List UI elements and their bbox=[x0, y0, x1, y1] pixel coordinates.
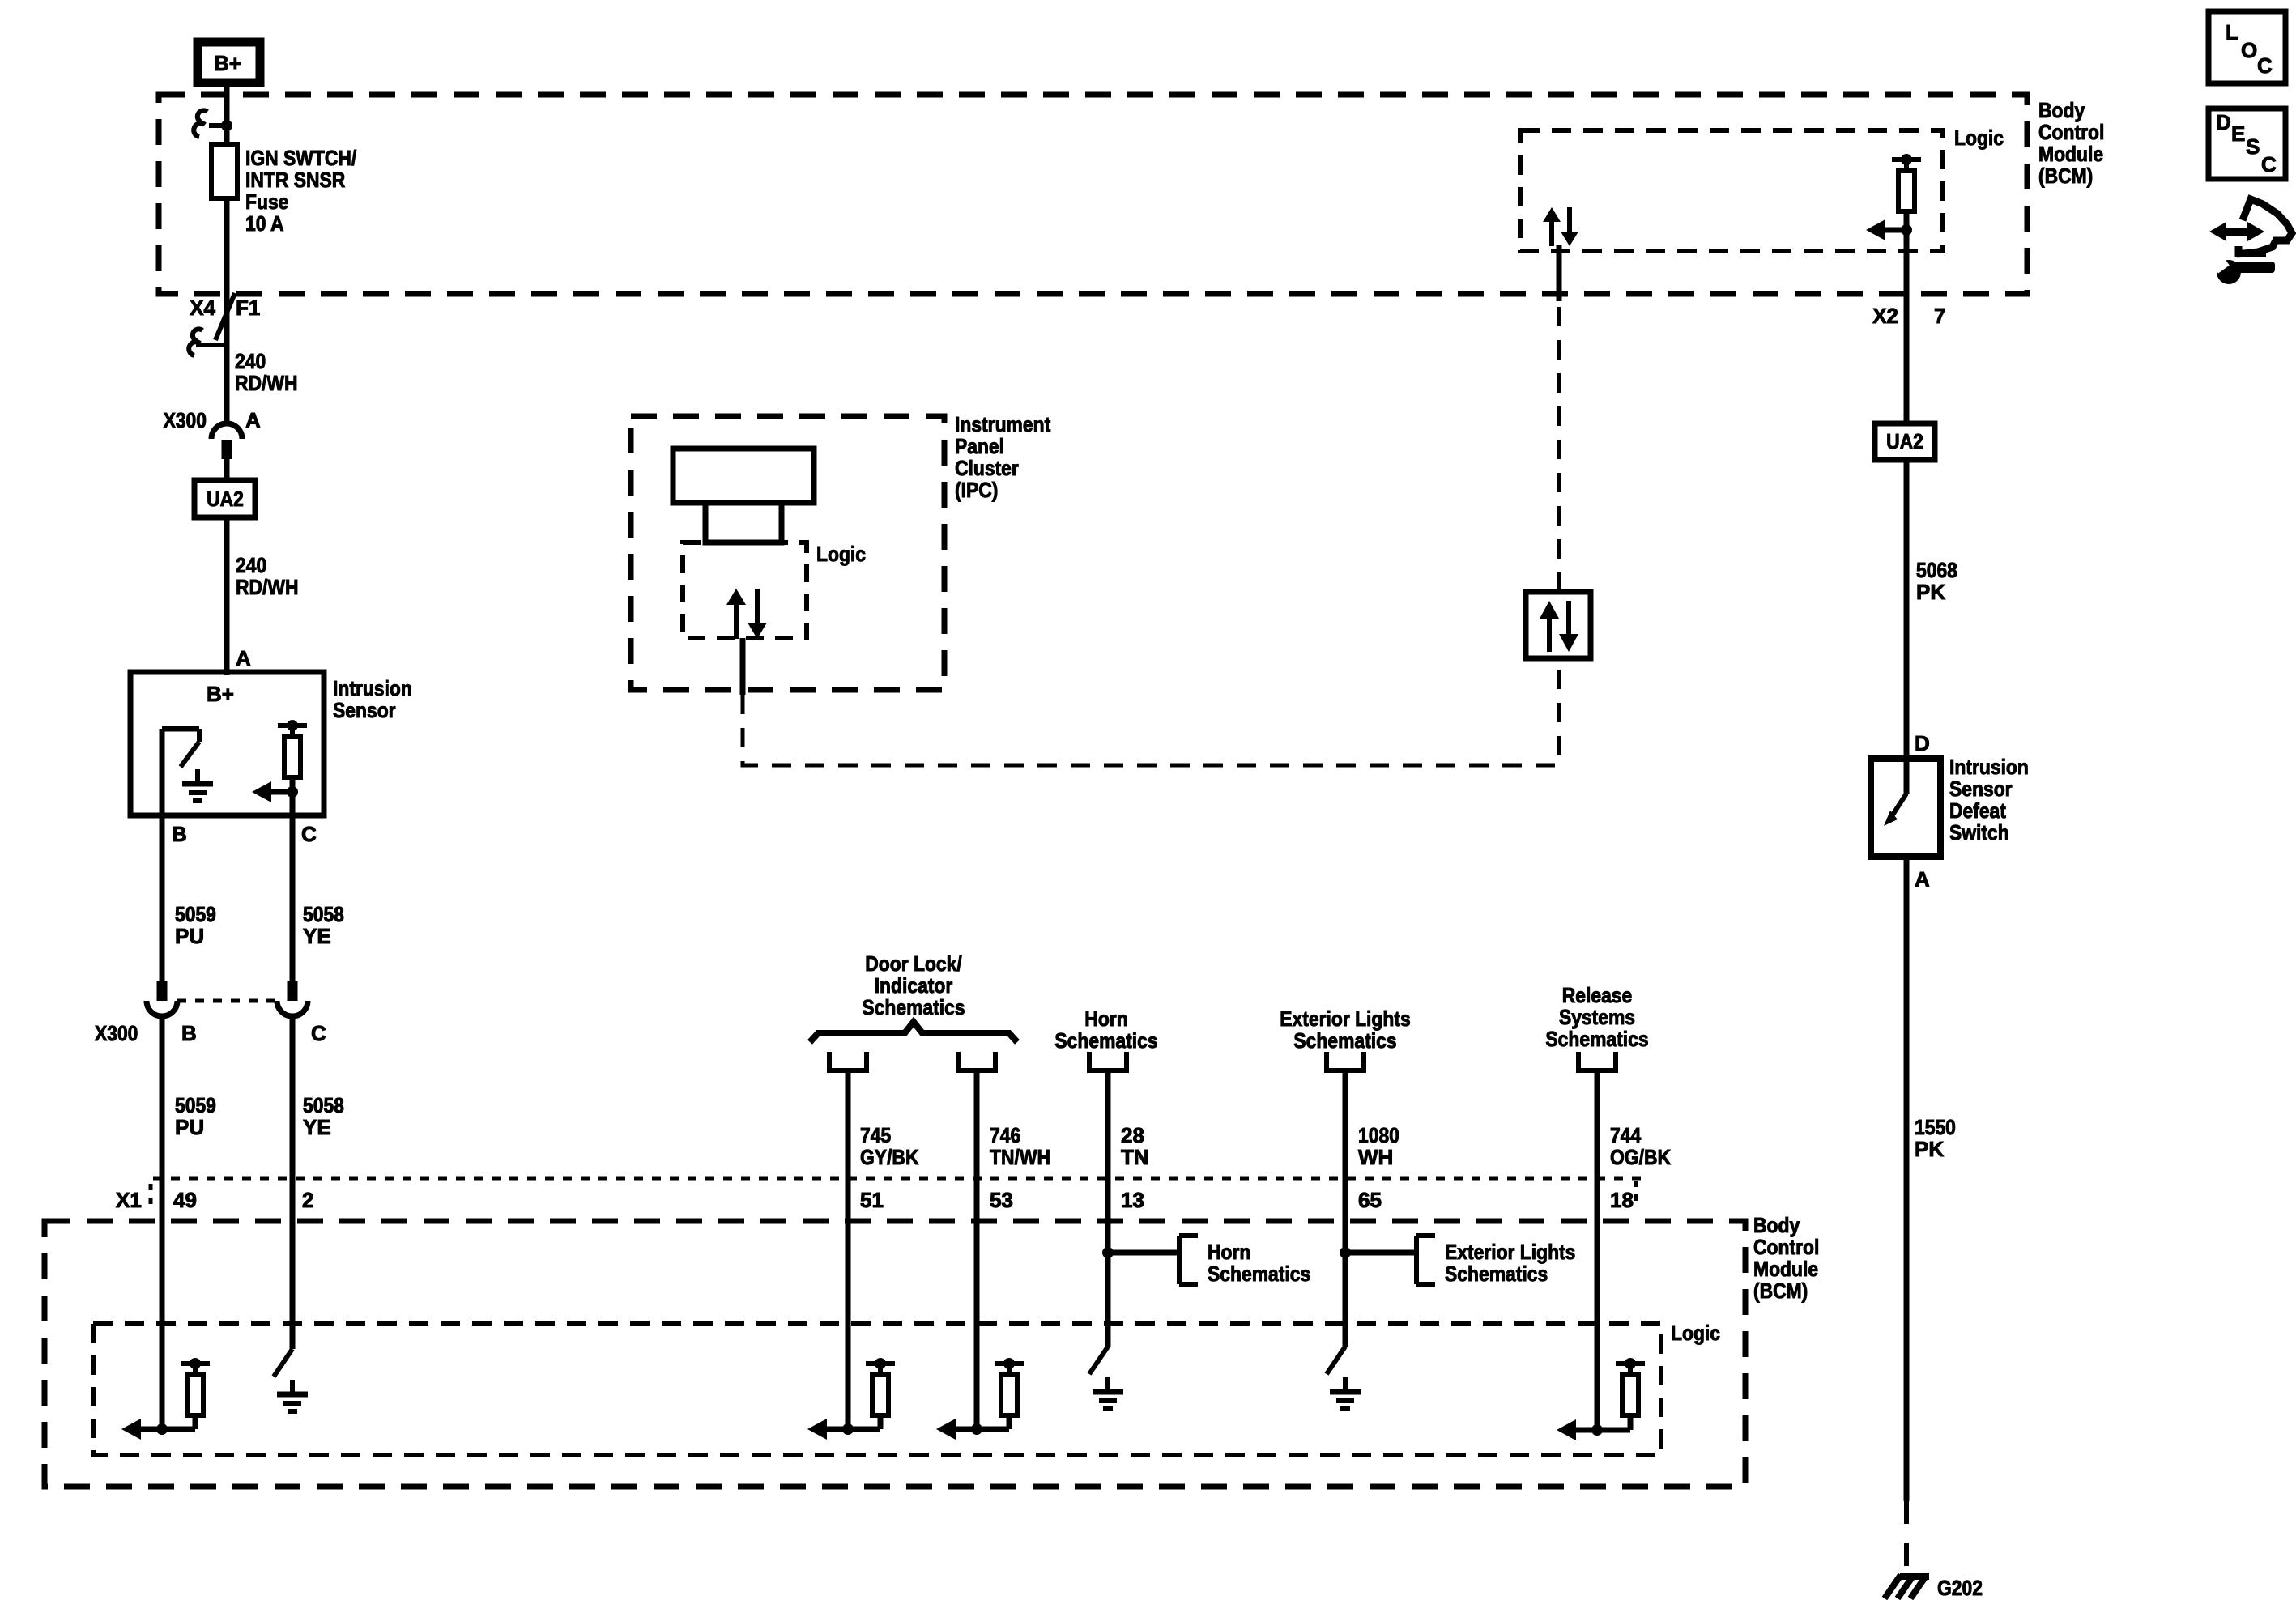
svg-text:Control: Control bbox=[1753, 1235, 1819, 1259]
svg-text:E: E bbox=[2231, 121, 2245, 146]
svg-text:RD/WH: RD/WH bbox=[236, 575, 299, 599]
svg-text:TN/WH: TN/WH bbox=[990, 1145, 1050, 1169]
svg-text:2: 2 bbox=[302, 1188, 313, 1212]
svg-text:F1: F1 bbox=[236, 296, 260, 320]
svg-text:B+: B+ bbox=[214, 51, 241, 75]
svg-text:C: C bbox=[2257, 53, 2273, 78]
svg-text:5068: 5068 bbox=[1916, 558, 1957, 582]
svg-text:IGN SWTCH/: IGN SWTCH/ bbox=[245, 146, 356, 170]
svg-text:Sensor: Sensor bbox=[1949, 777, 2013, 801]
svg-text:7: 7 bbox=[1934, 304, 1945, 328]
svg-text:745: 745 bbox=[860, 1123, 891, 1147]
svg-text:5059: 5059 bbox=[175, 902, 216, 926]
svg-text:X2: X2 bbox=[1872, 304, 1898, 328]
svg-text:C: C bbox=[2261, 152, 2277, 177]
svg-text:YE: YE bbox=[303, 1115, 331, 1139]
svg-text:Intrusion: Intrusion bbox=[1949, 755, 2029, 779]
svg-text:B: B bbox=[181, 1021, 197, 1045]
svg-text:A: A bbox=[245, 408, 261, 432]
svg-text:Instrument: Instrument bbox=[955, 412, 1050, 436]
svg-text:TN: TN bbox=[1121, 1145, 1149, 1169]
svg-text:PU: PU bbox=[175, 924, 204, 948]
svg-text:28: 28 bbox=[1121, 1123, 1144, 1147]
svg-text:B+: B+ bbox=[207, 682, 234, 706]
svg-text:C: C bbox=[311, 1021, 326, 1045]
svg-text:(BCM): (BCM) bbox=[2038, 164, 2093, 188]
svg-text:G202: G202 bbox=[1937, 1576, 1983, 1600]
svg-text:D: D bbox=[1915, 731, 1930, 755]
svg-text:X300: X300 bbox=[164, 408, 207, 432]
svg-text:WH: WH bbox=[1358, 1145, 1393, 1169]
svg-text:B: B bbox=[172, 822, 187, 846]
svg-text:5058: 5058 bbox=[303, 1093, 344, 1117]
svg-text:746: 746 bbox=[990, 1123, 1020, 1147]
svg-text:5058: 5058 bbox=[303, 902, 344, 926]
svg-text:PK: PK bbox=[1915, 1137, 1944, 1161]
svg-text:65: 65 bbox=[1358, 1188, 1382, 1212]
svg-text:RD/WH: RD/WH bbox=[235, 371, 298, 395]
svg-text:X4: X4 bbox=[190, 296, 215, 320]
svg-text:5059: 5059 bbox=[175, 1093, 216, 1117]
svg-text:(BCM): (BCM) bbox=[1753, 1279, 1808, 1303]
svg-text:UA2: UA2 bbox=[1886, 429, 1923, 453]
svg-text:Horn: Horn bbox=[1208, 1240, 1250, 1264]
svg-text:Horn: Horn bbox=[1084, 1006, 1127, 1031]
svg-text:O: O bbox=[2241, 38, 2257, 62]
svg-text:PU: PU bbox=[175, 1115, 204, 1139]
svg-text:D: D bbox=[2216, 110, 2231, 134]
svg-text:PK: PK bbox=[1916, 580, 1945, 604]
svg-text:YE: YE bbox=[303, 924, 331, 948]
svg-text:Fuse: Fuse bbox=[245, 189, 288, 214]
svg-text:S: S bbox=[2246, 134, 2260, 159]
svg-text:Indicator: Indicator bbox=[875, 973, 953, 998]
svg-text:Schematics: Schematics bbox=[862, 995, 965, 1019]
svg-text:Schematics: Schematics bbox=[1545, 1027, 1648, 1051]
svg-text:Logic: Logic bbox=[1954, 126, 2004, 150]
svg-text:GY/BK: GY/BK bbox=[860, 1145, 919, 1169]
svg-text:Systems: Systems bbox=[1559, 1005, 1635, 1029]
svg-text:10 A: 10 A bbox=[245, 211, 284, 236]
svg-text:L: L bbox=[2226, 20, 2238, 45]
svg-text:Body: Body bbox=[2038, 98, 2085, 122]
svg-text:UA2: UA2 bbox=[207, 487, 244, 511]
svg-text:X1: X1 bbox=[116, 1188, 142, 1212]
svg-text:18: 18 bbox=[1610, 1188, 1634, 1212]
svg-text:13: 13 bbox=[1121, 1188, 1144, 1212]
svg-text:C: C bbox=[301, 822, 317, 846]
svg-text:Panel: Panel bbox=[955, 434, 1004, 458]
svg-text:744: 744 bbox=[1610, 1123, 1642, 1147]
svg-text:Module: Module bbox=[1753, 1257, 1818, 1281]
svg-text:Schematics: Schematics bbox=[1445, 1262, 1548, 1286]
svg-text:INTR SNSR: INTR SNSR bbox=[245, 168, 345, 192]
svg-text:Schematics: Schematics bbox=[1293, 1028, 1396, 1053]
svg-text:Exterior Lights: Exterior Lights bbox=[1280, 1006, 1410, 1031]
svg-text:Logic: Logic bbox=[816, 542, 866, 566]
svg-text:1080: 1080 bbox=[1358, 1123, 1399, 1147]
svg-text:Intrusion: Intrusion bbox=[333, 676, 412, 700]
svg-text:Door Lock/: Door Lock/ bbox=[865, 951, 962, 976]
svg-text:Switch: Switch bbox=[1949, 820, 2009, 845]
svg-text:Schematics: Schematics bbox=[1208, 1262, 1310, 1286]
svg-text:OG/BK: OG/BK bbox=[1610, 1145, 1671, 1169]
svg-text:(IPC): (IPC) bbox=[955, 478, 998, 502]
svg-text:Cluster: Cluster bbox=[955, 456, 1019, 480]
svg-text:A: A bbox=[1915, 867, 1930, 891]
svg-text:1550: 1550 bbox=[1915, 1115, 1956, 1139]
svg-text:A: A bbox=[236, 646, 251, 670]
svg-text:51: 51 bbox=[860, 1188, 884, 1212]
svg-text:53: 53 bbox=[990, 1188, 1013, 1212]
svg-text:Module: Module bbox=[2038, 142, 2103, 166]
svg-text:Schematics: Schematics bbox=[1054, 1028, 1157, 1053]
svg-text:240: 240 bbox=[235, 349, 266, 373]
svg-text:Defeat: Defeat bbox=[1949, 798, 2006, 823]
svg-text:Control: Control bbox=[2038, 120, 2104, 144]
svg-text:Body: Body bbox=[1753, 1213, 1800, 1237]
svg-text:Logic: Logic bbox=[1671, 1321, 1720, 1345]
svg-text:Sensor: Sensor bbox=[333, 698, 396, 722]
svg-text:Release: Release bbox=[1562, 983, 1633, 1007]
svg-text:240: 240 bbox=[236, 553, 266, 577]
svg-text:X300: X300 bbox=[95, 1021, 138, 1045]
svg-text:Exterior Lights: Exterior Lights bbox=[1445, 1240, 1575, 1264]
svg-text:49: 49 bbox=[173, 1188, 197, 1212]
